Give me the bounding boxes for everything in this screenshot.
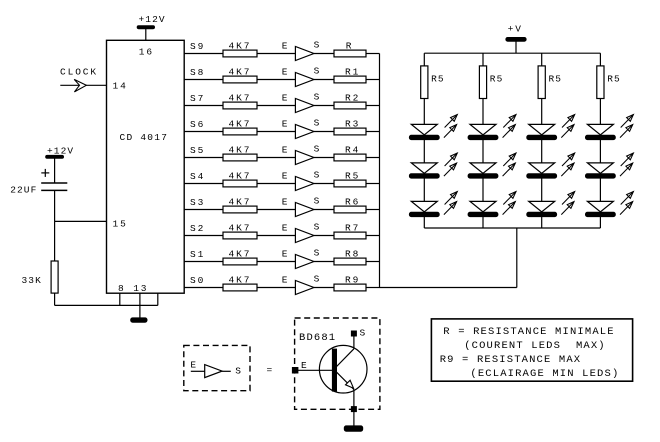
svg-text:R5: R5 [431, 74, 445, 85]
wire S1 to 4K7 [184, 261, 223, 263]
wire pin8 stub [119, 293, 121, 305]
LED D4 anode triangle [470, 124, 496, 134]
wire 4K7 to buffer E [257, 105, 295, 107]
svg-text:E: E [282, 145, 290, 156]
ground (IC) [131, 318, 148, 323]
LED D3 cathode bar [409, 212, 439, 217]
wire R6 to bus [366, 209, 380, 211]
wire R5 to LED col 2 [482, 99, 484, 125]
wire R to bus [366, 53, 380, 55]
wire pin13 to ground [139, 293, 141, 318]
wire R9 to bus [366, 287, 380, 289]
resistor R6 body [334, 206, 366, 213]
LED D9 light arrow 2 [561, 202, 574, 215]
op-amp U1 CD 4017 counter body [107, 40, 185, 293]
resistor 33K body [51, 261, 58, 293]
buffer U10 row 9 (BD681) [295, 255, 314, 269]
wire rail to R5 col 4 [599, 53, 601, 66]
svg-text:S: S [360, 328, 368, 339]
svg-text:4K7: 4K7 [229, 119, 252, 130]
svg-text:4K7: 4K7 [229, 93, 252, 104]
LED D1 light arrow 2 [444, 125, 457, 138]
LED D5 light arrow 1 [503, 153, 516, 166]
svg-text:S: S [314, 40, 322, 51]
LED D12 light arrow 1 [621, 192, 634, 205]
capacitor C1 plus sign [41, 172, 49, 174]
svg-text:R3: R3 [345, 118, 360, 129]
resistor 4K7 row 9 body [223, 258, 257, 265]
svg-text:R4: R4 [345, 144, 360, 155]
resistor 4K7 row 4 body [223, 128, 257, 135]
wire S9 to 4K7 [184, 53, 223, 55]
wire LED matrix return vertical [516, 228, 518, 288]
resistor R4 body [334, 154, 366, 161]
resistor 4K7 row 10 body [223, 284, 257, 291]
LED D3 light arrow 2 [444, 202, 457, 215]
resistor R5 col 4 body [597, 66, 604, 99]
wire D11 to next LED [599, 178, 601, 201]
svg-text:S: S [314, 92, 322, 103]
resistor 4K7 row 5 body [223, 154, 257, 161]
svg-text:8 13: 8 13 [118, 283, 148, 294]
LED D10 cathode bar [585, 135, 615, 140]
wire R8 to bus [366, 261, 380, 263]
svg-text:14: 14 [113, 80, 128, 91]
wire 4K7 to buffer E [257, 183, 295, 185]
wire node to R33K [54, 221, 56, 261]
svg-text:S: S [314, 66, 322, 77]
wire rail to R5 col 3 [541, 53, 543, 66]
wire S6 to 4K7 [184, 131, 223, 133]
wire C1 to node 15 [54, 190, 56, 221]
wire S4 to 4K7 [184, 183, 223, 185]
resistor R8 body [334, 258, 366, 265]
svg-text:R: R [346, 40, 354, 51]
buffer U11 row 10 (BD681) [295, 281, 314, 295]
wire buffer S to R4 [314, 157, 334, 159]
svg-text:R5: R5 [345, 170, 360, 181]
LED D6 anode triangle [470, 201, 496, 211]
svg-text:S5: S5 [190, 145, 205, 156]
LED D10 anode triangle [587, 124, 613, 134]
LED D8 anode triangle [529, 163, 555, 173]
svg-text:E: E [282, 171, 290, 182]
wire buffer S to R8 [314, 261, 334, 263]
wire R5 to LED col 1 [423, 99, 425, 125]
svg-text:E: E [282, 119, 290, 130]
wire R5 to LED col 3 [541, 99, 543, 125]
svg-text:S9: S9 [190, 41, 205, 52]
svg-text:4K7: 4K7 [229, 171, 252, 182]
LED D2 anode triangle [411, 163, 437, 173]
svg-text:R5: R5 [490, 74, 504, 85]
wire 4K7 to buffer E [257, 235, 295, 237]
svg-text:E: E [282, 197, 290, 208]
wire D12 to bottom rail [599, 217, 601, 228]
wire 4K7 to buffer E [257, 287, 295, 289]
resistor R5 col 3 body [538, 66, 545, 99]
wire legend S [222, 370, 231, 372]
LED D4 cathode bar [468, 135, 498, 140]
wire legend E [191, 370, 205, 372]
wire D1 to next LED [423, 140, 425, 163]
buffer U2 row 1 (BD681) [295, 47, 314, 61]
clock input arrow [74, 79, 86, 92]
wire node to pin15 [55, 220, 107, 222]
resistor 4K7 row 8 body [223, 232, 257, 239]
terminal E square [292, 367, 298, 373]
LED D8 light arrow 1 [562, 153, 575, 166]
wire 4K7 to buffer E [257, 209, 295, 211]
wire R3 to bus [366, 131, 380, 133]
buffer U5 row 4 (BD681) [295, 125, 314, 139]
wire bus to LED matrix return [380, 287, 517, 289]
wire buffer S to R9 [314, 287, 334, 289]
wire R2 to bus [366, 105, 380, 107]
resistor 4K7 row 6 body [223, 180, 257, 187]
wire buffer S to R2 [314, 105, 334, 107]
svg-text:S3: S3 [190, 197, 205, 208]
svg-text:R2: R2 [345, 92, 360, 103]
svg-text:S: S [314, 222, 322, 233]
svg-text:S: S [314, 144, 322, 155]
svg-text:4K7: 4K7 [229, 145, 252, 156]
note box border [431, 319, 632, 381]
LED D5 anode triangle [470, 163, 496, 173]
LED D11 cathode bar [585, 174, 615, 179]
buffer U9 row 8 (BD681) [295, 229, 314, 243]
LED D12 anode triangle [587, 201, 613, 211]
terminal S square [351, 331, 356, 336]
LED D2 light arrow 2 [444, 163, 457, 176]
legend dashed box buffer symbol [184, 345, 250, 390]
svg-text:R5: R5 [549, 74, 563, 85]
resistor R7 body [334, 232, 366, 239]
wire +V to rail [515, 41, 517, 53]
svg-text:E: E [301, 360, 309, 371]
wire ground rail under IC [55, 304, 158, 306]
LED D5 light arrow 2 [503, 163, 516, 176]
svg-text:R1: R1 [345, 66, 360, 77]
LED D11 light arrow 2 [620, 163, 633, 176]
buffer U8 row 7 (BD681) [295, 203, 314, 217]
legend dashed box BD681 [295, 318, 380, 409]
wire D5 to next LED [482, 178, 484, 201]
wire D2 to next LED [423, 178, 425, 201]
LED D9 light arrow 1 [562, 192, 575, 205]
wire D8 to next LED [541, 178, 543, 201]
wire rail to R5 col 2 [482, 53, 484, 66]
svg-text:S2: S2 [190, 223, 205, 234]
wire D7 to next LED [541, 140, 543, 163]
wire base [298, 369, 332, 371]
svg-text:4K7: 4K7 [229, 67, 252, 78]
legend buffer triangle [205, 365, 222, 378]
svg-text:E: E [282, 67, 290, 78]
svg-text:E: E [282, 41, 290, 52]
resistor 4K7 row 7 body [223, 206, 257, 213]
LED D6 light arrow 2 [503, 202, 516, 215]
svg-text:R8: R8 [345, 248, 360, 259]
LED D2 cathode bar [409, 174, 439, 179]
wire R1 to bus [366, 79, 380, 81]
wire 4K7 to buffer E [257, 53, 295, 55]
svg-text:4K7: 4K7 [229, 197, 252, 208]
resistor R2 body [334, 102, 366, 109]
LED D5 cathode bar [468, 174, 498, 179]
LED D10 light arrow 1 [621, 115, 634, 128]
svg-text:E: E [282, 249, 290, 260]
svg-text:E: E [282, 93, 290, 104]
ground (BD681) [344, 426, 363, 432]
svg-text:(COURENT LEDS MAX): (COURENT LEDS MAX) [464, 340, 606, 352]
resistor 4K7 row 1 body [223, 50, 257, 57]
svg-text:S: S [314, 248, 322, 259]
svg-text:(ECLAIRAGE MIN LEDS): (ECLAIRAGE MIN LEDS) [470, 368, 619, 380]
wire buffer S to R3 [314, 131, 334, 133]
LED D1 light arrow 1 [445, 115, 458, 128]
resistor 4K7 row 2 body [223, 76, 257, 83]
resistor R3 body [334, 128, 366, 135]
svg-text:=: = [267, 364, 275, 375]
buffer U3 row 2 (BD681) [295, 73, 314, 87]
wire 33K to ground rail [54, 293, 56, 305]
LED D7 anode triangle [529, 124, 555, 134]
wire CLOCK to pin14 [60, 84, 106, 86]
svg-text:S: S [314, 118, 322, 129]
transistor emitter line [337, 372, 354, 389]
svg-text:S: S [235, 365, 243, 376]
resistor R1 body [334, 76, 366, 83]
power bar +12V (cap) [46, 155, 64, 158]
svg-text:S: S [314, 274, 322, 285]
LED D8 light arrow 2 [561, 163, 574, 176]
LED D8 cathode bar [527, 174, 557, 179]
transistor collector line [337, 349, 354, 367]
resistor R body [334, 50, 366, 57]
svg-text:S6: S6 [190, 119, 205, 130]
resistor R9 body [334, 284, 366, 291]
svg-text:R9 = RESISTANCE MAX: R9 = RESISTANCE MAX [440, 354, 582, 366]
wire R7 to bus [366, 235, 380, 237]
buffer U4 row 3 (BD681) [295, 99, 314, 113]
LED D2 light arrow 1 [445, 153, 458, 166]
wire buffer S to R7 [314, 235, 334, 237]
wire R5 to bus [366, 183, 380, 185]
LED D9 cathode bar [527, 212, 557, 217]
wire 4K7 to buffer E [257, 131, 295, 133]
buffer U7 row 6 (BD681) [295, 177, 314, 191]
svg-text:S: S [314, 196, 322, 207]
resistor R5 col 1 body [421, 66, 428, 99]
svg-text:R6: R6 [345, 196, 360, 207]
LED D11 light arrow 1 [621, 153, 634, 166]
svg-text:15: 15 [113, 218, 128, 229]
svg-text:S8: S8 [190, 67, 205, 78]
resistor 4K7 row 3 body [223, 102, 257, 109]
LED D7 light arrow 1 [562, 115, 575, 128]
LED D12 cathode bar [585, 212, 615, 217]
wire +12V to C1 [54, 158, 56, 183]
LED D11 anode triangle [587, 163, 613, 173]
wire emitter down [353, 390, 355, 407]
svg-text:33K: 33K [22, 275, 42, 286]
wire rail to R5 col 1 [423, 53, 425, 66]
wire buffer S to R6 [314, 209, 334, 211]
wire buffer S to R [314, 53, 334, 55]
wire S8 to 4K7 [184, 79, 223, 81]
LED D12 light arrow 2 [620, 202, 633, 215]
svg-text:S0: S0 [190, 275, 205, 286]
wire S2 to 4K7 [184, 235, 223, 237]
capacitor C1 bottom plate [41, 189, 67, 191]
wire 4K7 to buffer E [257, 79, 295, 81]
svg-text:4K7: 4K7 [229, 249, 252, 260]
svg-text:+V: +V [508, 23, 523, 34]
resistor R5 body [334, 180, 366, 187]
svg-text:R = RESISTANCE MINIMALE: R = RESISTANCE MINIMALE [443, 326, 614, 338]
junction square (box bottom) [351, 407, 356, 412]
wire S0 to 4K7 [184, 287, 223, 289]
svg-text:S1: S1 [190, 249, 205, 260]
LED D10 light arrow 2 [620, 125, 633, 138]
LED D9 anode triangle [529, 201, 555, 211]
svg-text:E: E [282, 275, 290, 286]
wire output bus vertical [379, 54, 381, 288]
wire LED top rail [424, 52, 600, 54]
svg-text:BD681: BD681 [299, 332, 336, 344]
wire 4K7 to buffer E [257, 157, 295, 159]
buffer U6 row 5 (BD681) [295, 151, 314, 165]
wire D3 to bottom rail [423, 217, 425, 228]
svg-text:16: 16 [139, 46, 154, 57]
wire +12V to pin16 [145, 29, 147, 41]
wire 4K7 to buffer E [257, 261, 295, 263]
transistor Q1 BD681 symbol [319, 345, 367, 393]
wire D6 to bottom rail [482, 217, 484, 228]
wire right stub [157, 293, 159, 305]
svg-text:R7: R7 [345, 222, 360, 233]
LED D7 light arrow 2 [561, 125, 574, 138]
svg-text:S4: S4 [190, 171, 205, 182]
svg-text:E: E [190, 359, 198, 370]
svg-text:4K7: 4K7 [229, 275, 252, 286]
power bar +12V (pin16) [137, 26, 155, 29]
wire R4 to bus [366, 157, 380, 159]
resistor R5 col 2 body [479, 66, 486, 99]
capacitor C1 top plate [41, 182, 67, 184]
emitter arrow head [346, 380, 354, 388]
svg-text:R9: R9 [345, 274, 360, 285]
wire collector to S [353, 336, 355, 349]
wire S7 to 4K7 [184, 105, 223, 107]
LED D3 light arrow 1 [445, 192, 458, 205]
wire S3 to 4K7 [184, 209, 223, 211]
LED D1 anode triangle [411, 124, 437, 134]
svg-text:S: S [314, 170, 322, 181]
svg-text:4K7: 4K7 [229, 223, 252, 234]
LED D6 cathode bar [468, 212, 498, 217]
wire buffer S to R1 [314, 79, 334, 81]
transistor base bar [332, 349, 336, 391]
svg-text:S7: S7 [190, 93, 205, 104]
wire R5 to LED col 4 [599, 99, 601, 125]
svg-text:+12V: +12V [139, 14, 166, 25]
wire LED bottom rail [424, 227, 600, 229]
svg-text:E: E [282, 223, 290, 234]
wire buffer S to R5 [314, 183, 334, 185]
svg-text:CLOCK: CLOCK [60, 67, 98, 78]
svg-text:CD 4017: CD 4017 [120, 132, 169, 143]
svg-text:4K7: 4K7 [229, 41, 252, 52]
svg-text:22UF: 22UF [10, 185, 37, 196]
LED D3 anode triangle [411, 201, 437, 211]
svg-text:R5: R5 [607, 74, 621, 85]
LED D4 light arrow 1 [503, 115, 516, 128]
wire S5 to 4K7 [184, 157, 223, 159]
wire to ground [353, 412, 355, 426]
LED D1 cathode bar [409, 135, 439, 140]
LED D6 light arrow 1 [503, 192, 516, 205]
wire D10 to next LED [599, 140, 601, 163]
wire D4 to next LED [482, 140, 484, 163]
LED D7 cathode bar [527, 135, 557, 140]
LED D4 light arrow 2 [503, 125, 516, 138]
power bar +V [506, 37, 526, 41]
wire D9 to bottom rail [541, 217, 543, 228]
